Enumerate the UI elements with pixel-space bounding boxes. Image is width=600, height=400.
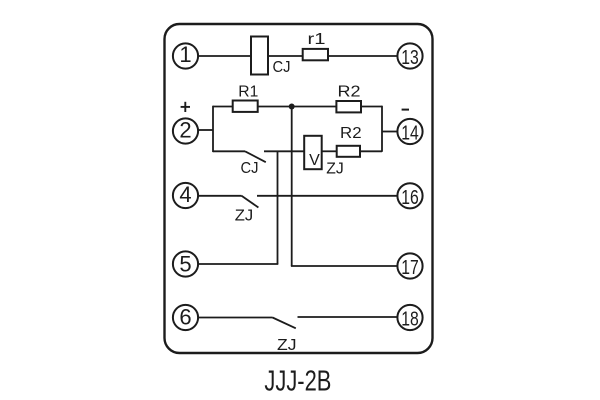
svg-text:R2: R2: [340, 125, 362, 142]
contact ZJ label row6: [277, 337, 297, 354]
svg-text:r1: r1: [308, 31, 326, 48]
contact ZJ label row4: [235, 208, 254, 225]
wire lower branch left segment: [213, 150, 245, 152]
terminal 16: [397, 183, 422, 209]
varistor V: [304, 136, 322, 169]
terminal 4: [173, 182, 198, 208]
wire contact to terminal 18: [298, 316, 398, 318]
varistor label ZJ: [326, 160, 344, 177]
enclosure border: [165, 24, 433, 353]
resistor R2 upper: [336, 84, 361, 113]
svg-text:JJJ-2B: JJJ-2B: [264, 365, 331, 397]
svg-text:14: 14: [401, 122, 419, 145]
svg-text:R1: R1: [238, 84, 258, 101]
model caption JJJ-2B: [264, 365, 331, 397]
svg-text:ZJ: ZJ: [326, 160, 344, 177]
terminal 6: [173, 304, 198, 330]
svg-text:R2: R2: [338, 84, 361, 101]
wire right vertical to terminal 14: [382, 131, 397, 133]
svg-text:17: 17: [401, 256, 419, 279]
wire right vertical branch: [381, 106, 383, 152]
wire contact to terminal 16: [257, 195, 397, 197]
terminal 1: [173, 42, 198, 69]
terminal 13: [397, 43, 422, 69]
wire terminal1 to coil CJ: [198, 55, 251, 57]
wire varistor to resistor R2b: [322, 150, 337, 152]
contact CJ blade: [245, 151, 266, 162]
wire center-right vertical to terminal 17: [291, 265, 398, 267]
wire center-right vertical from node dot to terminal17 row: [291, 107, 293, 267]
wire resistor r1 to terminal 13: [328, 55, 397, 57]
svg-text:ZJ: ZJ: [235, 208, 254, 225]
terminal 17: [397, 253, 422, 279]
svg-text:ZJ: ZJ: [277, 337, 297, 354]
wire resistor R2a to right corner: [361, 106, 382, 108]
wire coil CJ to resistor r1: [268, 55, 303, 57]
wire terminal4 to contact: [198, 195, 241, 197]
relay coil CJ: [251, 37, 291, 77]
svg-text:1: 1: [179, 42, 191, 67]
svg-text:16: 16: [401, 186, 419, 209]
terminal 2: [173, 118, 198, 144]
svg-text:2: 2: [179, 118, 191, 143]
terminal 5: [173, 251, 198, 276]
svg-text:6: 6: [179, 304, 191, 329]
wire terminal6 to contact: [198, 317, 272, 319]
wire left vertical branch: [212, 106, 214, 152]
resistor r1: [303, 31, 328, 60]
junction node dot: [289, 104, 295, 110]
contact ZJ blade row4: [242, 196, 259, 208]
svg-text:13: 13: [401, 46, 419, 69]
svg-text:5: 5: [179, 251, 191, 276]
terminal 14: [397, 119, 422, 145]
svg-text:18: 18: [401, 308, 419, 331]
wire top branch to resistor R1: [213, 106, 233, 108]
minus polarity mark: [402, 109, 409, 111]
svg-text:CJ: CJ: [273, 59, 291, 76]
wire resistor R2b to right corner: [360, 150, 382, 152]
wire resistor R1 to resistor R2a: [258, 106, 337, 108]
contact ZJ blade row6: [273, 318, 296, 329]
svg-text:4: 4: [179, 182, 191, 207]
plus polarity mark: [181, 102, 190, 112]
resistor R1: [233, 84, 259, 112]
terminal 18: [397, 305, 422, 331]
wire terminal2 to node: [198, 129, 213, 131]
contact CJ label: [241, 160, 259, 177]
wire lower branch right segment to varistor: [264, 150, 304, 152]
resistor R2 lower: [337, 125, 362, 157]
wire terminal5 to center-left vertical: [198, 263, 278, 265]
svg-text:V: V: [309, 152, 320, 169]
svg-text:CJ: CJ: [241, 160, 259, 177]
wire center-left vertical to terminal5 row: [277, 151, 279, 264]
